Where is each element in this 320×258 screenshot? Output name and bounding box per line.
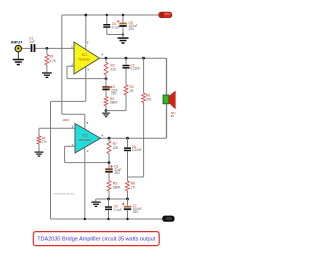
capacitor C9 0.1uF (108, 199, 110, 206)
resistor R6 20K bridge feed (143, 58, 145, 93)
wire: IC1 feedback loop from pin2 (67, 65, 74, 67)
svg-text:IC1: IC1 (82, 53, 87, 57)
node: R3 ground junction (105, 109, 108, 112)
svg-text:1R: 1R (130, 89, 135, 93)
wire: IC1 pin3 drop (85, 67, 87, 102)
wire: ground link to zobel R4 (106, 110, 126, 112)
wire: jack to C1 (22, 47, 31, 49)
ground under C5 (118, 37, 129, 39)
op-amp IC1 TDA2030 (yellow) (74, 42, 100, 74)
wire: H2 link to IC2 pin5 (62, 113, 85, 115)
wire: H1 link IC1 pin3 (51, 100, 86, 102)
capacitor C4 0.1uF supply decoupling (106, 15, 108, 24)
svg-text:1uF: 1uF (29, 40, 35, 44)
speaker SP1 8 ohm (163, 95, 169, 104)
resistor R9 bias to ground (38, 128, 40, 136)
svg-text:22K: 22K (110, 68, 117, 72)
svg-text:R1: R1 (50, 55, 54, 59)
wire: V+ top rail (62, 14, 160, 16)
svg-text:25V: 25V (133, 210, 140, 214)
wire: IC2 pin1 input (39, 127, 75, 129)
connector J2 +V supply (red) (159, 12, 172, 18)
capacitor C1 1uF input coupling (31, 44, 33, 52)
wire: IC2 output (108, 137, 111, 140)
node: input junction (46, 47, 49, 50)
node: output junctions (105, 57, 108, 60)
wire: IC1 output (99, 57, 167, 59)
svg-text:0.22uF: 0.22uF (130, 67, 140, 71)
capacitor C5 100uF 25V supply filter (122, 15, 124, 23)
node: R7/C6 junction (108, 161, 111, 164)
wire: 0V bottom rail (51, 218, 164, 220)
svg-text:22K: 22K (42, 139, 47, 143)
resistor R2 22K feedback (105, 58, 107, 62)
resistor R5 680R (107, 181, 111, 192)
svg-text:25V: 25V (129, 27, 136, 31)
wire: IC2 pin5 riser (84, 114, 86, 129)
wire: C4 to C5 link (107, 34, 123, 36)
title banner (33, 232, 159, 246)
svg-text:TDA2030: TDA2030 (78, 57, 90, 61)
svg-text:R8: R8 (131, 182, 135, 186)
svg-text:25V: 25V (111, 92, 118, 96)
svg-text:R5: R5 (113, 182, 117, 186)
capacitor C6 22uF 25V (108, 163, 110, 169)
resistor R1 input load (46, 48, 48, 54)
wire: IC2 pin2 loop (65, 145, 75, 147)
resistor R4 1R zobel IC1 (124, 85, 128, 95)
wire: C1 to IC1 pin1 (35, 47, 74, 49)
svg-text:0.1uF: 0.1uF (112, 25, 120, 29)
wire: speaker bus to IC2 output (166, 104, 168, 138)
wire: IC1 pin5 riser (85, 15, 87, 50)
node: rail junction at IC1 pin5 (84, 14, 87, 17)
op-amp IC2 TDA2030 (cyan) (75, 124, 101, 154)
svg-text:IC2: IC2 (82, 134, 87, 138)
svg-text:100K: 100K (63, 118, 70, 122)
wire: V+ drop to IC2 supply (61, 15, 63, 114)
capacitor C2 22uF 25V (105, 79, 107, 86)
wire: R6 bottom link to zobel IC2 (128, 176, 144, 178)
wire: IC2 pin3 drop to rail (84, 148, 86, 220)
ground under input jack (17, 52, 19, 59)
svg-text:TDA2030: TDA2030 (79, 138, 91, 142)
ground at lower link (95, 199, 97, 202)
ground under R9 (35, 152, 44, 153)
resistor R8 1R zobel IC2 (126, 181, 130, 191)
connector J3 ground (black) (163, 216, 175, 222)
connector J1 input jack (15, 45, 21, 51)
svg-text:680R: 680R (110, 100, 118, 104)
svg-text:R2: R2 (110, 63, 114, 67)
capacitor C3 0.22uF zobel IC1 (125, 58, 127, 65)
wire: speaker bus from IC1 output (166, 58, 168, 95)
svg-text:4.7K: 4.7K (50, 59, 57, 63)
svg-text:25V: 25V (114, 171, 121, 175)
ground at R3 (105, 111, 107, 113)
capacitor C8 0.22uF zobel IC2 (127, 138, 129, 147)
resistor R7 22K feedback IC2 (108, 138, 110, 141)
svg-text:1R: 1R (131, 186, 136, 190)
svg-text:20K: 20K (146, 97, 153, 101)
wire: left bus down to 0V rail (50, 101, 52, 219)
node: feedback junction R2/C2 (105, 77, 108, 80)
capacitor C7 100uF 25V (127, 199, 129, 206)
wire: lower ground link (96, 198, 128, 200)
svg-text:680R: 680R (113, 186, 121, 190)
resistor R3 680R (104, 97, 108, 106)
svg-text:TDA2030 Bridge Amplifier circu: TDA2030 Bridge Amplifier circuit 35 watt… (37, 237, 155, 243)
svg-text:0.1uF: 0.1uF (114, 208, 122, 212)
ground under R1 (42, 72, 52, 73)
svg-text:22K: 22K (113, 146, 120, 150)
svg-text:R7: R7 (113, 142, 117, 146)
svg-text:R6: R6 (146, 93, 150, 97)
svg-text:0.22uF: 0.22uF (132, 148, 142, 152)
svg-text:INPUT: INPUT (11, 40, 23, 44)
